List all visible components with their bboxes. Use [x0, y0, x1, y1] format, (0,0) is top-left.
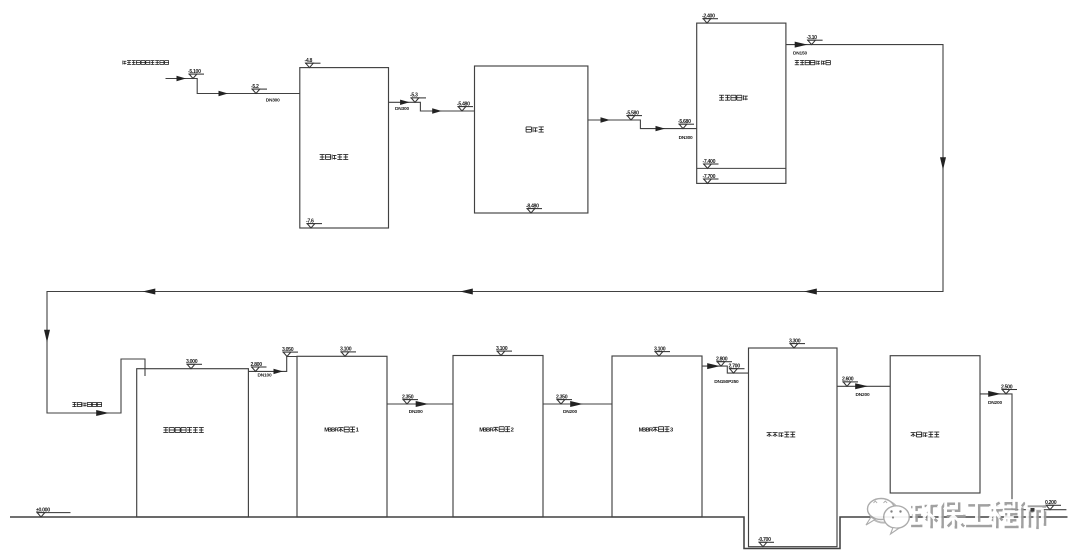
svg-text:DN300: DN300	[679, 135, 693, 141]
svg-text:3.100: 3.100	[340, 347, 352, 353]
svg-text:2.350: 2.350	[402, 394, 414, 400]
svg-text:3.000: 3.000	[186, 359, 198, 365]
svg-text:3: 3	[670, 427, 673, 433]
svg-text:-3.10: -3.10	[807, 35, 818, 41]
svg-text:-5.480: -5.480	[457, 101, 470, 107]
svg-text:-8.480: -8.480	[526, 203, 539, 209]
svg-text:-7.6: -7.6	[306, 218, 314, 224]
svg-text:DN150: DN150	[793, 51, 807, 57]
svg-text:2.700: 2.700	[729, 364, 741, 370]
svg-text:DN300: DN300	[395, 106, 409, 112]
svg-text:-4.8: -4.8	[305, 58, 313, 64]
svg-text:-2.400: -2.400	[702, 14, 715, 20]
svg-text:3.100: 3.100	[496, 346, 508, 352]
svg-text:DN200: DN200	[988, 400, 1002, 406]
svg-text:0.200: 0.200	[1045, 500, 1057, 506]
svg-text:2: 2	[511, 427, 514, 433]
svg-text:3.300: 3.300	[789, 338, 801, 344]
svg-text:-7.700: -7.700	[703, 174, 716, 180]
svg-text:DN200: DN200	[409, 409, 423, 415]
svg-text:3.100: 3.100	[654, 346, 666, 352]
svg-text:2.800: 2.800	[716, 357, 728, 363]
svg-text:-5.100: -5.100	[188, 69, 201, 75]
svg-text:2.600: 2.600	[842, 377, 854, 383]
svg-text:-5.680: -5.680	[678, 119, 691, 125]
svg-text:-5.3: -5.3	[410, 93, 418, 99]
svg-text:DN200: DN200	[856, 392, 870, 398]
svg-text:2.800: 2.800	[251, 362, 263, 368]
svg-text:DN200: DN200	[563, 409, 577, 415]
svg-text:3.050: 3.050	[282, 347, 294, 353]
svg-text:DN300: DN300	[266, 98, 280, 104]
svg-text:-5.2: -5.2	[251, 84, 259, 90]
svg-text:DN150P250: DN150P250	[714, 379, 739, 385]
svg-text:±0.000: ±0.000	[36, 507, 50, 513]
svg-text:-0.700: -0.700	[758, 537, 771, 543]
svg-text:DN100: DN100	[258, 373, 272, 379]
svg-text:2.500: 2.500	[1001, 384, 1013, 390]
svg-text:-5.580: -5.580	[626, 110, 639, 116]
svg-text:-7.400: -7.400	[703, 159, 716, 165]
svg-text:2.350: 2.350	[556, 394, 568, 400]
